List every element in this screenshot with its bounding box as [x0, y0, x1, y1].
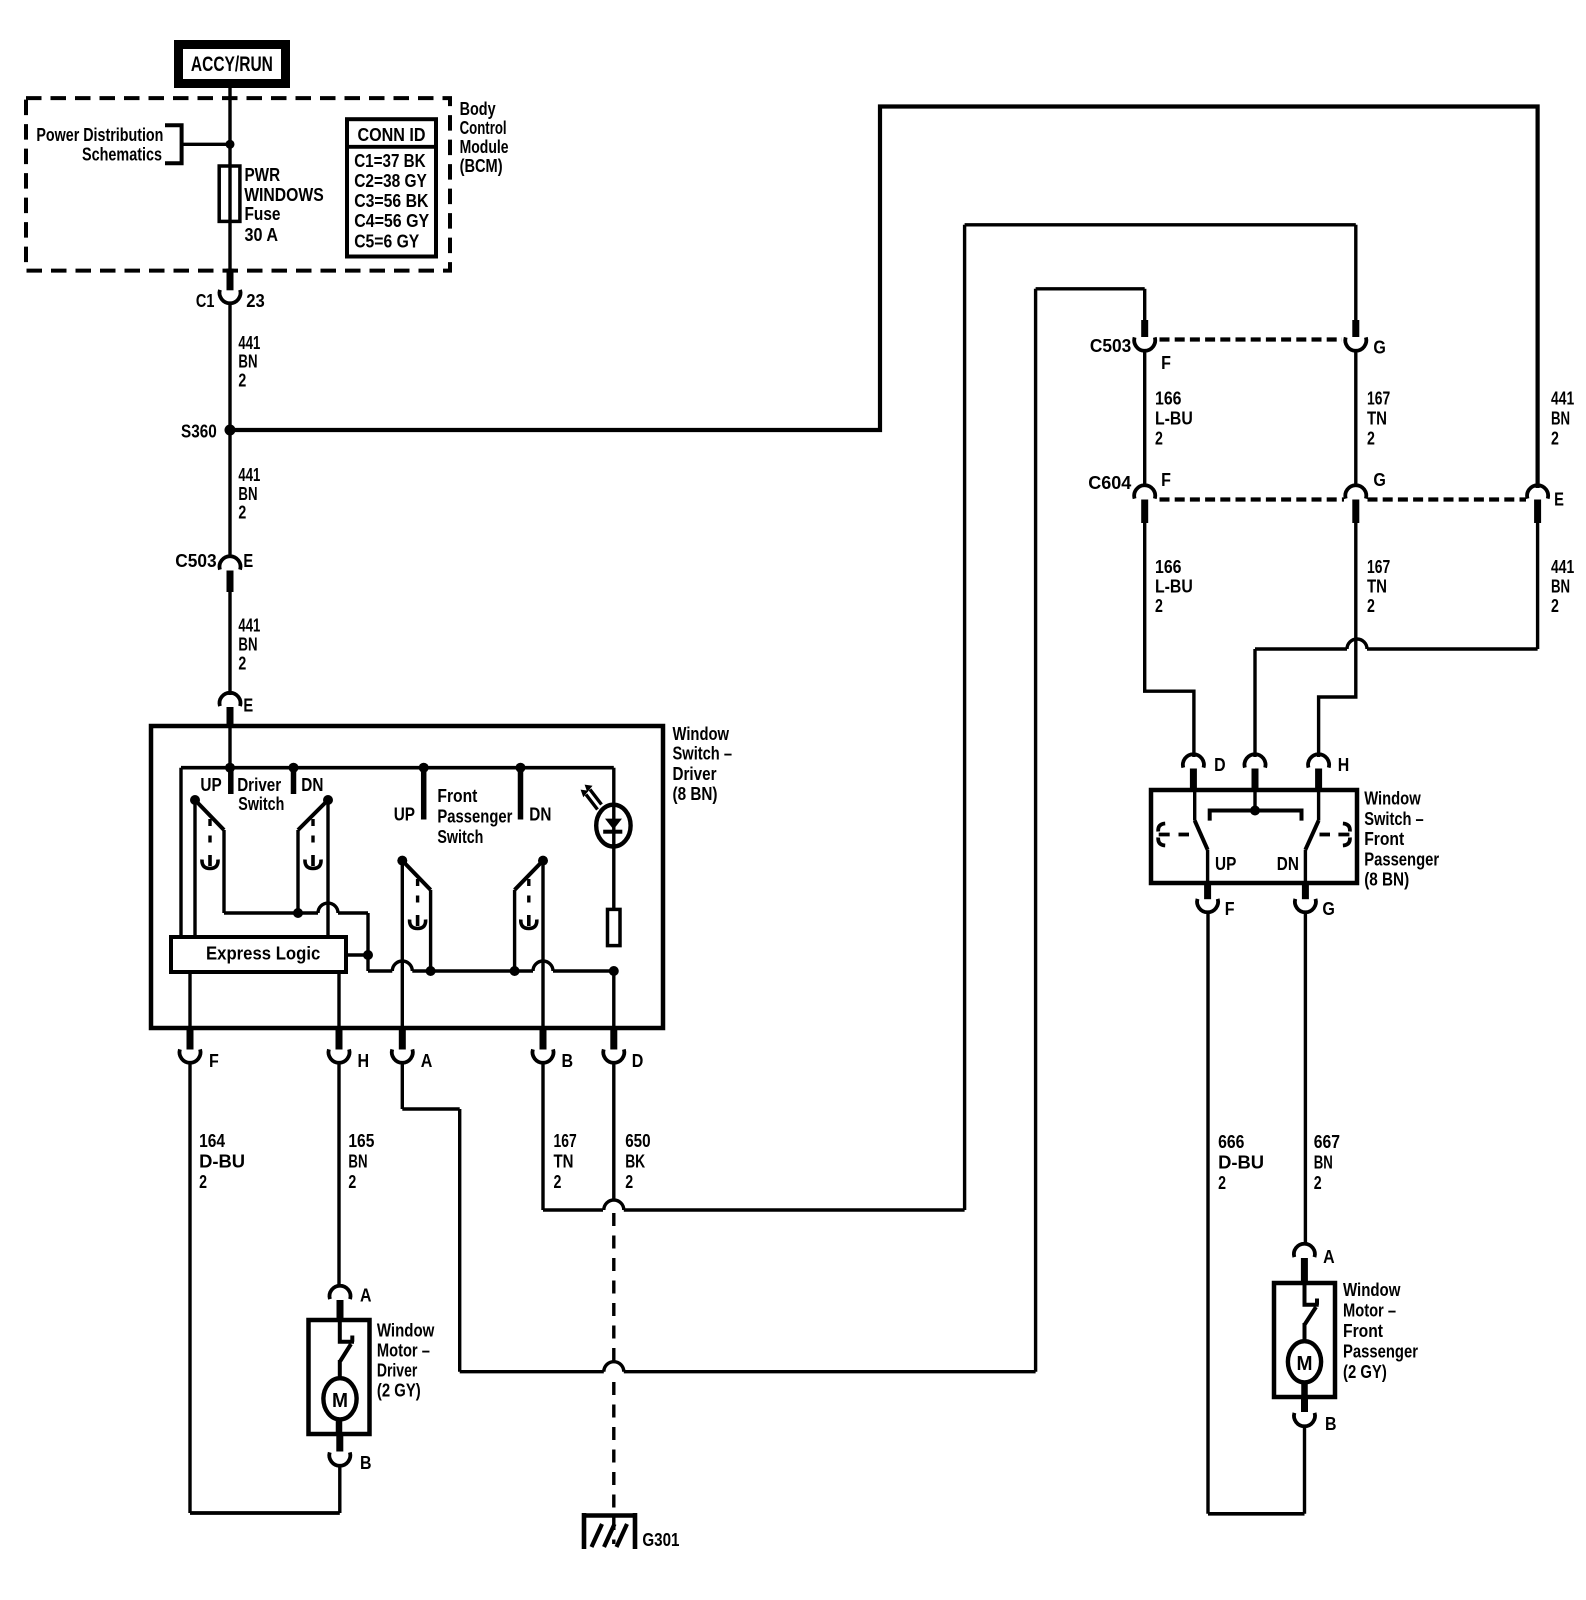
svg-text:F: F: [1225, 898, 1235, 919]
connector C503 pin G (right): [1352, 320, 1359, 337]
component box Express Logic: [171, 937, 346, 972]
svg-text:E: E: [243, 695, 253, 716]
component box Window Motor - Driver: [309, 1320, 370, 1434]
svg-text:C5=6 GY: C5=6 GY: [354, 230, 420, 251]
passenger UP momentary indicator: [416, 879, 419, 906]
svg-text:UP: UP: [394, 804, 415, 825]
wire 667 BN from passenger switch pin G to motor: [1304, 913, 1307, 1246]
svg-text:C4=56 GY: C4=56 GY: [354, 210, 430, 231]
wire 167 TN from pin B: [541, 1064, 544, 1211]
wire motor to box bottom (passenger): [1301, 1382, 1308, 1397]
svg-text:Switch –: Switch –: [673, 742, 733, 763]
label 666 D-BU 2: [1218, 1131, 1264, 1193]
svg-text:Motor –: Motor –: [1343, 1300, 1396, 1321]
output rail in driver box: [368, 969, 392, 972]
connector pin D of passenger switch: [1183, 754, 1204, 767]
svg-text:2: 2: [238, 502, 246, 523]
connector C604 pin G: [1345, 485, 1366, 498]
connector pin H of driver switch: [336, 1030, 343, 1050]
svg-text:BN: BN: [1551, 576, 1570, 597]
motor M symbol driver: [323, 1378, 356, 1419]
power symbol ACCY/RUN: [179, 45, 286, 84]
component box Window Switch - Driver: [151, 726, 663, 1028]
svg-text:166: 166: [1155, 388, 1182, 409]
connector C503 pin F (right): [1141, 320, 1148, 337]
svg-text:Front: Front: [1364, 828, 1404, 849]
component box Window Switch - Front Passenger: [1151, 790, 1357, 883]
wire E pin to bus: [228, 726, 231, 768]
svg-text:Power Distribution: Power Distribution: [36, 124, 163, 145]
svg-text:D: D: [632, 1050, 644, 1071]
svg-text:TN: TN: [1367, 407, 1387, 428]
passenger switch DN contact and blade: [1317, 790, 1320, 821]
svg-text:167: 167: [1367, 556, 1390, 577]
wire driver motor B to 164 D-BU return: [338, 1467, 341, 1514]
label 441 BN 2 (C1 to S360): [238, 332, 260, 391]
driver UP switch contact stub: [228, 768, 234, 794]
note Power Distribution Schematics: [36, 124, 163, 165]
connector C604 pin F: [1134, 485, 1155, 498]
svg-text:CONN ID: CONN ID: [358, 124, 426, 145]
svg-text:Fuse: Fuse: [245, 203, 281, 224]
svg-text:UP: UP: [200, 774, 221, 795]
svg-text:E: E: [1554, 489, 1564, 510]
svg-text:Driver: Driver: [377, 1359, 417, 1380]
bracket for Power Distribution note: [165, 125, 182, 163]
wire resistor to output rail and pin D: [612, 971, 615, 1028]
svg-text:H: H: [358, 1050, 370, 1071]
driver DN switch pivot and blade: [323, 795, 333, 805]
thermal circuit breaker in passenger motor: [1303, 1283, 1319, 1342]
label 167 TN 2 (upper): [1367, 388, 1390, 449]
label 441 BN 2 (S360 to C503): [238, 464, 260, 523]
svg-text:G301: G301: [642, 1529, 679, 1550]
connector C604 pin E (right): [1527, 485, 1548, 498]
hop over UP pivot line to pin A: [392, 961, 412, 971]
fuse PWR WINDOWS 30 A: [219, 166, 240, 221]
wire 441 BN from S360 to C503: [228, 435, 231, 558]
svg-text:A: A: [421, 1050, 433, 1071]
svg-text:DN: DN: [1277, 853, 1299, 874]
svg-text:TN: TN: [554, 1151, 574, 1172]
svg-text:C503: C503: [1090, 335, 1131, 356]
svg-text:164: 164: [199, 1130, 226, 1151]
svg-text:Passenger: Passenger: [1364, 848, 1439, 869]
svg-text:Passenger: Passenger: [437, 805, 512, 826]
splice S360: [225, 425, 236, 436]
junction dot at express logic side tap: [363, 950, 373, 960]
svg-text:Module: Module: [460, 136, 509, 157]
svg-text:E: E: [243, 550, 253, 571]
svg-text:UP: UP: [1215, 853, 1236, 874]
svg-text:TN: TN: [1367, 576, 1387, 597]
svg-text:C1: C1: [196, 290, 215, 311]
svg-text:Driver: Driver: [673, 763, 717, 784]
svg-text:C1=37 BK: C1=37 BK: [354, 150, 426, 171]
svg-text:F: F: [1161, 352, 1171, 373]
svg-text:F: F: [209, 1050, 219, 1071]
hop where 167 TN crosses 650 BK ground wire: [604, 1200, 624, 1210]
LED light arrows: [586, 790, 602, 810]
label Window Switch - Front Passenger (8 BN): [1364, 788, 1439, 890]
driver UP momentary indicator: [208, 819, 211, 846]
passenger switch UP contact and blade: [1193, 790, 1196, 821]
wire from bracket to main feed: [182, 143, 228, 146]
DN momentary indicator (passenger switch): [1338, 824, 1350, 846]
svg-text:C503: C503: [175, 550, 216, 571]
svg-text:PWR: PWR: [245, 164, 281, 185]
svg-text:Front: Front: [437, 785, 477, 806]
driver UP switch pivot and blade: [190, 795, 200, 805]
svg-text:2: 2: [199, 1171, 207, 1192]
label Window Switch - Driver (8 BN): [673, 723, 733, 804]
svg-text:2: 2: [554, 1171, 562, 1192]
svg-text:Driver: Driver: [237, 774, 281, 795]
thermal circuit breaker in driver motor: [338, 1320, 354, 1379]
wire Express Logic to pin H: [337, 972, 340, 1028]
svg-text:C2=38 GY: C2=38 GY: [354, 170, 427, 191]
svg-text:BK: BK: [625, 1151, 645, 1172]
hop where 166 L-BU run crosses 650 BK: [604, 1362, 624, 1372]
svg-text:Control: Control: [460, 117, 507, 138]
label 441 BN 2 (right drop lower): [1551, 556, 1574, 616]
connector pin D of driver switch: [610, 1030, 617, 1050]
wire 166 L-BU between C503 and C604: [1143, 351, 1146, 487]
driver DN momentary indicator: [311, 819, 314, 846]
wire 165 BN from pin H to driver motor: [337, 1064, 340, 1288]
wire ACCY/RUN feed down to connector C1: [228, 84, 231, 291]
wire 650 BK from pin D (solid part): [612, 1064, 615, 1201]
wire 650 BK dashed to ground: [612, 1213, 615, 1362]
label Front Passenger Switch: [437, 785, 512, 847]
wire tap into Express Logic right side: [346, 953, 368, 956]
label 650 BK 2: [625, 1130, 650, 1192]
svg-text:M: M: [332, 1389, 348, 1412]
svg-text:Front: Front: [1343, 1320, 1383, 1341]
svg-text:2: 2: [348, 1171, 356, 1192]
svg-text:DN: DN: [529, 804, 551, 825]
svg-text:650: 650: [625, 1130, 650, 1151]
svg-text:B: B: [1325, 1413, 1337, 1434]
wire 167 TN between C503 and C604: [1354, 351, 1357, 487]
svg-text:M: M: [1297, 1352, 1313, 1375]
junction dot at power distribution tap: [226, 140, 235, 149]
wire 441 BN from C1 to S360: [228, 303, 231, 426]
svg-text:BN: BN: [238, 633, 257, 654]
connector pin F of passenger switch: [1204, 883, 1211, 899]
wire 166 L-BU from pin A of driver switch: [401, 1064, 404, 1110]
svg-text:667: 667: [1314, 1131, 1340, 1152]
resistor in driver switch: [608, 909, 621, 945]
svg-text:(8 BN): (8 BN): [1364, 869, 1409, 890]
svg-text:166: 166: [1155, 556, 1182, 577]
passenger DN switch pivot and blade (driver box): [538, 856, 548, 866]
svg-text:C604: C604: [1088, 472, 1132, 493]
svg-text:Express Logic: Express Logic: [206, 943, 320, 964]
svg-text:D-BU: D-BU: [199, 1151, 245, 1172]
svg-text:Body: Body: [460, 98, 497, 119]
hop over DN pivot line to pin B: [533, 961, 553, 971]
svg-text:Window: Window: [1343, 1279, 1401, 1300]
hop where 441 BN crosses 167 TN: [1347, 639, 1367, 649]
label 166 L-BU 2 (upper): [1155, 388, 1193, 449]
svg-text:Switch –: Switch –: [1364, 808, 1424, 829]
svg-text:2: 2: [1155, 595, 1163, 616]
svg-text:B: B: [562, 1050, 574, 1071]
connector center pin of passenger switch: [1245, 754, 1266, 767]
passenger UP switch pivot and blade (driver box): [397, 856, 407, 866]
ground G301: [584, 1513, 637, 1549]
svg-text:A: A: [360, 1285, 372, 1306]
label 441 BN 2 (right drop upper): [1551, 388, 1574, 449]
svg-text:23: 23: [246, 290, 265, 311]
internal supply bus of driver switch: [181, 766, 614, 770]
hop over DN pivot line: [318, 903, 338, 913]
wire motor to box bottom: [336, 1419, 343, 1434]
wire Express Logic to pin F: [188, 972, 191, 1028]
connector pin B of driver switch: [540, 1030, 547, 1050]
svg-text:2: 2: [1314, 1172, 1322, 1193]
label Window Motor - Driver (2 GY): [377, 1319, 435, 1400]
svg-text:Motor –: Motor –: [377, 1339, 430, 1360]
connector pin H of passenger switch: [1308, 754, 1329, 767]
connector pin E at driver window switch: [220, 693, 241, 706]
svg-text:BN: BN: [1551, 407, 1570, 428]
wire from driver outputs down to express logic side: [366, 913, 369, 971]
svg-text:2: 2: [1551, 427, 1559, 448]
svg-text:L-BU: L-BU: [1155, 407, 1193, 428]
svg-text:(2 GY): (2 GY): [1343, 1361, 1387, 1382]
svg-text:167: 167: [554, 1130, 577, 1151]
wire 167 TN from C604 to passenger switch pin H: [1319, 523, 1356, 757]
UP momentary indicator (passenger switch): [1158, 824, 1170, 846]
connector pin A of driver switch: [399, 1030, 406, 1050]
wire 441 BN from C503 to driver switch: [228, 592, 231, 695]
svg-text:Window: Window: [377, 1319, 435, 1340]
svg-text:165: 165: [348, 1130, 374, 1151]
connector table CONN ID: [347, 119, 436, 256]
connector pin B of driver window motor: [336, 1434, 343, 1452]
label Driver Switch: [237, 774, 284, 814]
label 165 BN 2: [348, 1130, 374, 1192]
LED indicator in driver switch: [612, 768, 615, 909]
label 164 D-BU 2: [199, 1130, 245, 1192]
svg-text:Window: Window: [1364, 788, 1421, 809]
label Window Motor - Front Passenger (2 GY): [1343, 1279, 1418, 1382]
svg-text:2: 2: [1367, 595, 1375, 616]
dashed harness line C503: [1160, 337, 1343, 341]
svg-text:A: A: [1323, 1246, 1335, 1267]
svg-text:(2 GY): (2 GY): [377, 1379, 421, 1400]
wire joining driver switch outputs: [224, 911, 318, 914]
svg-text:2: 2: [625, 1171, 633, 1192]
svg-text:D: D: [1214, 754, 1226, 775]
svg-text:F: F: [1161, 469, 1171, 490]
wire passenger motor B to 666 D-BU return: [1303, 1427, 1306, 1514]
svg-text:S360: S360: [181, 421, 217, 442]
svg-text:666: 666: [1218, 1131, 1244, 1152]
connector pin G of passenger switch: [1302, 883, 1309, 899]
wire 441 BN from C604 E down to passenger switch center pin: [1536, 523, 1539, 649]
connector pin F of driver switch: [187, 1030, 194, 1050]
connector pin A of driver window motor: [330, 1286, 351, 1299]
junction dot driver DN output: [293, 908, 303, 918]
label 667 BN 2: [1314, 1131, 1340, 1193]
label 166 L-BU 2 (lower): [1155, 556, 1193, 616]
svg-text:BN: BN: [238, 351, 257, 372]
wire 166 L-BU from C604 to passenger switch pin D: [1145, 523, 1194, 757]
svg-text:Switch: Switch: [238, 793, 284, 814]
connector pin A of passenger window motor: [1294, 1244, 1315, 1257]
svg-text:G: G: [1373, 337, 1386, 358]
svg-text:G: G: [1322, 898, 1335, 919]
BCM dashed outline box: [26, 98, 450, 271]
passenger DN switch contact stub (in driver box): [518, 768, 524, 820]
svg-text:(BCM): (BCM): [460, 155, 503, 176]
svg-text:Switch: Switch: [437, 826, 483, 847]
svg-text:G: G: [1373, 469, 1386, 490]
svg-text:2: 2: [1155, 427, 1163, 448]
svg-text:H: H: [1338, 754, 1350, 775]
driver DN switch contact stub: [291, 768, 297, 794]
svg-text:2: 2: [1367, 427, 1375, 448]
svg-text:2: 2: [238, 370, 246, 391]
supply tee inside passenger switch: [1253, 790, 1256, 811]
svg-text:C3=56 BK: C3=56 BK: [354, 190, 429, 211]
label 167 TN 2 (driver side): [554, 1130, 577, 1192]
svg-text:441: 441: [1551, 556, 1574, 577]
connector C503 pin E (left): [220, 556, 241, 569]
label 167 TN 2 (lower): [1367, 556, 1390, 616]
svg-text:441: 441: [1551, 388, 1574, 409]
connector C1 pin 23: [227, 269, 234, 291]
dashed harness line C604: [1160, 497, 1345, 501]
svg-text:167: 167: [1367, 388, 1390, 409]
svg-text:441: 441: [238, 464, 260, 485]
svg-text:2: 2: [1551, 595, 1559, 616]
svg-text:Window: Window: [673, 723, 730, 744]
wire 441 BN from S360 right and over to passenger side: [230, 107, 1538, 489]
wire 666 D-BU from passenger switch pin F: [1206, 913, 1209, 1514]
svg-text:BN: BN: [1314, 1152, 1333, 1173]
svg-text:Schematics: Schematics: [82, 144, 162, 165]
component box Window Motor - Front Passenger: [1274, 1283, 1335, 1397]
label PWR WINDOWS Fuse 30 A: [244, 164, 324, 245]
svg-text:L-BU: L-BU: [1155, 576, 1193, 597]
svg-text:2: 2: [1218, 1172, 1226, 1193]
svg-text:(8 BN): (8 BN): [673, 783, 718, 804]
svg-text:D-BU: D-BU: [1218, 1152, 1264, 1173]
svg-text:ACCY/RUN: ACCY/RUN: [191, 53, 273, 76]
motor M symbol passenger: [1288, 1341, 1321, 1382]
svg-text:30 A: 30 A: [245, 224, 279, 245]
junction dots on output rail: [426, 966, 436, 976]
svg-text:WINDOWS: WINDOWS: [244, 184, 324, 205]
wire 164 D-BU from pin F: [188, 1064, 191, 1514]
passenger UP switch contact stub (in driver box): [421, 768, 427, 820]
svg-text:Passenger: Passenger: [1343, 1341, 1418, 1362]
svg-text:2: 2: [238, 652, 246, 673]
label Body Control Module (BCM): [460, 98, 509, 176]
bus junction dots: [225, 763, 235, 773]
passenger DN momentary indicator: [527, 879, 530, 906]
label 441 BN 2 (C503 to switch): [238, 615, 260, 674]
connector pin B of passenger window motor: [1301, 1397, 1308, 1412]
svg-text:DN: DN: [301, 774, 323, 795]
svg-text:B: B: [360, 1452, 372, 1473]
svg-text:BN: BN: [348, 1151, 367, 1172]
